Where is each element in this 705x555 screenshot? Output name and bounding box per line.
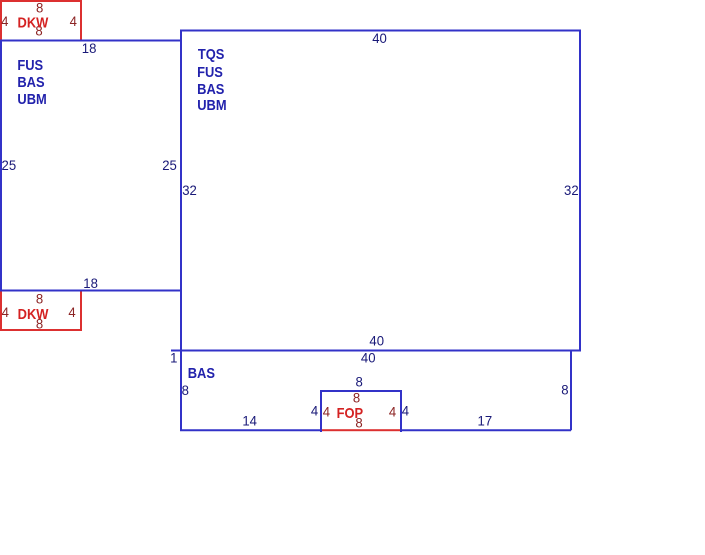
- svg-text:DKW: DKW: [18, 305, 50, 322]
- svg-text:BAS: BAS: [197, 80, 224, 97]
- svg-text:4: 4: [1, 14, 9, 29]
- svg-text:8: 8: [561, 382, 568, 397]
- svg-text:FOP: FOP: [337, 404, 363, 421]
- svg-text:UBM: UBM: [197, 96, 226, 113]
- svg-text:25: 25: [2, 157, 17, 172]
- svg-text:8: 8: [356, 374, 363, 389]
- svg-text:4: 4: [389, 404, 397, 419]
- svg-text:BAS: BAS: [188, 364, 215, 381]
- svg-text:8: 8: [182, 383, 189, 398]
- svg-text:18: 18: [82, 40, 97, 55]
- svg-text:4: 4: [2, 305, 10, 320]
- svg-text:25: 25: [162, 157, 177, 172]
- svg-text:4: 4: [311, 403, 319, 418]
- svg-text:40: 40: [372, 30, 387, 45]
- svg-text:17: 17: [478, 413, 493, 428]
- svg-text:40: 40: [369, 333, 384, 348]
- svg-text:UBM: UBM: [17, 90, 46, 107]
- svg-text:4: 4: [68, 305, 76, 320]
- svg-text:4: 4: [323, 404, 331, 419]
- svg-text:DKW: DKW: [18, 13, 50, 30]
- svg-text:4: 4: [402, 403, 410, 418]
- svg-text:40: 40: [361, 350, 376, 365]
- svg-text:14: 14: [242, 413, 257, 428]
- svg-text:32: 32: [564, 182, 579, 197]
- svg-text:BAS: BAS: [17, 73, 44, 90]
- svg-text:32: 32: [182, 182, 197, 197]
- svg-text:18: 18: [83, 276, 98, 291]
- svg-text:1: 1: [170, 350, 177, 365]
- svg-text:FUS: FUS: [197, 63, 223, 80]
- svg-text:FUS: FUS: [17, 56, 43, 73]
- svg-text:TQS: TQS: [198, 45, 224, 62]
- svg-text:4: 4: [70, 14, 78, 29]
